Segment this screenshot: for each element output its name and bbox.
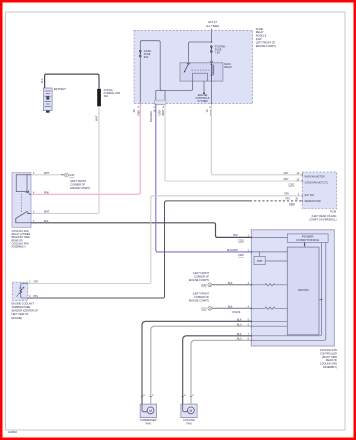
svg-text:BATTERY: BATTERY [54,87,66,91]
svg-text:BLK: BLK [237,333,242,336]
wires: pins 7/8 wrap to power conditioning [322,242,326,338]
ECT label [12,302,39,319]
pin numbers under box [138,107,212,109]
wire: ground to control unit pin3 [212,284,252,286]
svg-text:ENGINE COMPT): ENGINE COMPT) [70,187,90,190]
svg-text:BLU/GRN: BLU/GRN [227,249,238,252]
relay switch [16,218,31,222]
svg-text:C202: C202 [238,239,244,242]
svg-text:M: M [149,409,152,413]
svg-text:15: 15 [205,109,209,112]
relay inner terminal block [193,73,208,81]
svg-text:BLK: BLK [228,306,233,309]
fuse/relay box (engine compartment) [134,30,253,103]
svg-text:(C/FAN): (C/FAN) [232,311,241,314]
ground G/12 [189,272,210,282]
fuse PTC/FAN 7.5A [211,46,213,53]
svg-text:G/12: G/12 [201,284,207,287]
fusible link [97,89,101,107]
svg-text:BLU: BLU [237,323,242,326]
wire: cooling fan + [183,336,252,404]
connector bump on box edge [155,100,166,104]
svg-text:CONDITIONING: CONDITIONING [296,238,319,242]
wire: condenser fan - [151,326,252,404]
svg-text:30A: 30A [104,95,109,98]
wire: cooling fan - [191,340,251,404]
condenser fan label [140,418,157,425]
mechanical link (dashed) [192,69,210,71]
pin labels [33,172,50,223]
wire: relay switch stub to engine control system [203,81,205,93]
wire: relay pin1 to ground [31,174,60,176]
pin1 labels [227,234,250,257]
TMP box [254,256,265,264]
wire: stub to connector bump (gray exit) [164,91,166,104]
micom box [287,247,319,335]
svg-text:SENSOR GND: SENSOR GND [305,200,321,203]
inner wire pin2 to TMP [251,252,287,257]
svg-text:SYSTEM: SYSTEM [197,100,207,103]
PCM wire labels [284,172,301,206]
mech link dashed [21,194,23,212]
svg-text:BLK: BLK [228,282,233,285]
fuse C/FAN 30A [140,50,142,57]
svg-text:RELAY: RELAY [224,66,232,69]
wire: ECT gray to PCM row3 [28,196,302,284]
svg-text:WHT: WHT [96,115,99,121]
svg-text:RAD FAN MOTOR: RAD FAN MOTOR [305,176,325,179]
svg-text:FAN: FAN [186,422,191,426]
svg-text:MICOM: MICOM [298,288,309,292]
svg-text:BLU/BLK: BLU/BLK [149,111,153,122]
relay (in box) [180,63,223,81]
svg-text:ENGINE COOLANT: ENGINE COOLANT [12,302,35,305]
inner wires pins 5-8 [251,321,287,326]
inner wire pin3 with resistor [251,284,287,286]
fuse/relay box label [256,28,276,48]
ground G/07 [65,173,76,177]
wire: ground to control unit pin4 [212,307,252,309]
pin stubs [27,174,31,176]
relay coil [210,63,212,81]
control unit pin ticks [250,236,252,341]
cooling fan relay box [12,173,31,228]
wire: fusible link white down [31,106,99,213]
ground G/13 [189,293,210,303]
svg-text:HOT AT: HOT AT [208,20,218,24]
wire: gray to PCM row2 [165,104,302,182]
svg-text:M: M [189,409,192,413]
svg-text:C205: C205 [238,254,244,257]
cooling fan motor [181,404,197,418]
svg-text:GRY: GRY [284,172,290,175]
svg-text:BLK: BLK [41,78,44,83]
relay switch [184,63,191,73]
svg-text:TMP: TMP [257,259,263,263]
svg-text:PPL: PPL [286,198,291,201]
node: junction dot [211,41,213,43]
wire labels pins 5-8 [237,319,250,341]
svg-text:4A0052: 4A0052 [8,430,18,434]
inner wire pin4 with resistor [251,307,287,309]
svg-text:G/13: G/13 [201,307,207,310]
svg-text:BLU: BLU [237,338,242,341]
power conditioning box [287,234,328,243]
wire: fuse to relay coil [210,52,212,62]
svg-text:ALL TIMES: ALL TIMES [206,24,219,28]
wire: blue from connector bump to control unit [156,104,252,252]
svg-text:7.5A: 7.5A [215,52,220,55]
label HOT AT ALL TIMES [206,20,219,28]
svg-text:C202: C202 [289,184,295,187]
svg-text:ECT SIG: ECT SIG [305,194,315,197]
label engine control system [196,94,210,103]
svg-text:GRY: GRY [158,110,162,116]
svg-text:GRY: GRY [34,281,40,284]
svg-text:COND FAN MOT CTL: COND FAN MOT CTL [305,181,329,184]
motor pin ticks [141,396,192,398]
svg-text:FAN: FAN [146,422,151,426]
PCM box [302,172,336,209]
relay coil rect [16,175,29,194]
svg-text:ENGINE COMPT): ENGINE COMPT) [256,45,276,48]
wire: ECT purple to PCM row4 [28,201,250,298]
svg-text:BLK: BLK [234,234,239,237]
battery [44,88,53,113]
svg-text:WHT: WHT [44,211,50,214]
wire: gray to PCM row1 [211,104,302,175]
wire: condenser fan + [142,321,251,404]
PCM pin ticks [301,174,303,203]
svg-text:COOLING: COOLING [183,418,195,422]
svg-text:CONDENSER: CONDENSER [140,418,157,422]
svg-text:ASSEMBLY): ASSEMBLY) [323,366,337,369]
wire: pink from relay pin2 up into fuse box [31,104,140,195]
svg-text:ENGINE): ENGINE) [12,317,23,320]
ECT sensor box [12,282,27,300]
wire color labels (rotated) below box [132,109,213,122]
svg-text:30A: 30A [144,56,149,59]
stub power->micom [304,242,306,246]
thermistor symbol [20,284,28,299]
svg-text:COMPT ON FIREWALL): COMPT ON FIREWALL) [309,218,337,221]
svg-text:ASSEMBLY): ASSEMBLY) [12,246,26,249]
svg-text:LEFT SIDE OF: LEFT SIDE OF [12,313,29,316]
wire: relay pin4 black across page [31,223,251,238]
cooling fan label [183,418,195,425]
inner wire pin1 to power conditioning [251,236,287,238]
svg-text:BLK: BLK [237,319,242,322]
wire: battery feed into box [210,29,212,42]
control unit box [251,230,334,346]
svg-text:ENGINE COMPT): ENGINE COMPT) [189,279,209,282]
wire: fuse down to box edge (becomes PNK) [139,57,141,104]
wire: coil down through box edge [210,81,212,104]
wire: relay switch out to C/FAN fuse loop [140,41,192,91]
svg-text:C202: C202 [289,203,295,206]
wire: stub to connector bump (blue exit) [156,91,160,104]
svg-text:TEMPERATURE: TEMPERATURE [12,306,31,309]
svg-text:GRY: GRY [284,178,290,181]
svg-text:36: 36 [132,109,136,112]
svg-text:SENSOR (CENTER OF: SENSOR (CENTER OF [12,310,39,313]
wire: battery to fusible link [45,74,99,89]
svg-text:ENGINE COMPT): ENGINE COMPT) [189,299,209,302]
wire: branch to relay switch [189,42,212,63]
svg-text:G/07: G/07 [69,174,75,177]
cooling fan relay label [12,230,31,249]
svg-text:PPL: PPL [34,295,39,298]
condenser fan motor [140,404,156,418]
svg-text:PCM: PCM [330,209,336,213]
control unit label [320,349,338,369]
